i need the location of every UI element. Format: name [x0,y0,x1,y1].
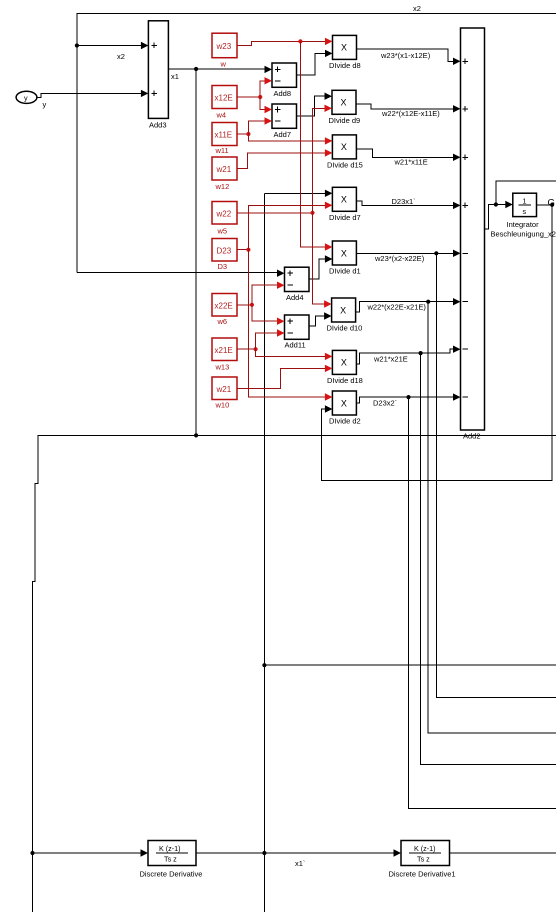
multiply block Divide d2 [332,391,356,415]
wire Discrete Derivative output [196,852,395,854]
svg-text:w: w [220,60,227,69]
wire Divide d1 output to Add2 [356,252,454,254]
label D23x1` [392,197,416,206]
wire x1dot vertical [263,193,265,912]
arrow into Divide d2 input2 [325,405,333,412]
arrow into Add2 port6 [453,298,461,305]
svg-text:DIvide d9: DIvide d9 [329,116,361,125]
svg-text:x11E: x11E [215,131,233,140]
label w21*x11E [394,158,428,167]
svg-text:w22*(x22E-x21E): w22*(x22E-x21E) [367,303,427,312]
label w21*x21E [373,355,408,364]
svg-text:DIvide d10: DIvide d10 [327,324,363,333]
sum block Add4 [285,267,310,291]
wire Divide d10 output to Add2 [356,302,455,312]
label x2 (top) [413,4,421,13]
node branch port6 [426,300,430,304]
svg-text:1: 1 [523,197,527,206]
label w5 [217,227,228,236]
label Add2 [463,432,481,441]
arrow red into Add4 minus [277,282,285,289]
svg-text:Discrete Derivative1: Discrete Derivative1 [389,870,456,879]
wire x1dot to Divide d7 [264,192,325,194]
label Add8 [274,89,292,98]
node integrator output branch [550,203,554,207]
svg-text:Ts z: Ts z [417,855,430,864]
wire Add8 output to Divide d8 [297,53,326,75]
wire w22 vertical to Divide d10 input1 [313,213,326,304]
multiply block Divide d1 [332,241,356,265]
label Add11 [285,341,306,350]
arrow red into Divide d18 input1 [325,353,333,360]
node x2 branch [75,43,79,47]
wire w21 first to Divide d15 input2 [237,153,326,169]
from tag x21E [212,338,237,361]
arrow red into Add7 minus [265,117,273,124]
svg-text:D23x2`: D23x2` [373,399,397,408]
arrow into Add2 port7 [453,346,461,353]
label Beschleunigung_x23 [491,230,556,239]
wire Add4 output to Divide d1 [309,259,326,279]
svg-text:Discrete Derivative: Discrete Derivative [140,870,203,879]
svg-text:w21*x11E: w21*x11E [394,158,428,167]
arrow into Add2 port1 [453,58,461,65]
arrow into Integrator [505,201,513,208]
node x1 bottom branch [194,433,198,437]
from tag w21 second [212,377,237,400]
arrow red into Divide d9 input2 [325,105,333,112]
wire x12E to Add8 minus [260,81,266,97]
label y (wire name) [43,100,47,109]
inport y oval [16,91,37,103]
label D23x2` [373,399,397,408]
wire x11E to Add7 minus [248,121,266,134]
svg-text:w5: w5 [217,227,228,236]
node D23 branch [246,248,250,252]
from tag D23 [212,239,237,262]
wire Divide d15 output to Add2 [356,149,454,158]
wire loop2 from port6 to right edge [428,302,556,733]
label D3 [218,262,228,271]
label Discrete Derivative1 [389,870,456,879]
arrow into Divide d8 input2 [325,50,333,57]
from tag x12E [212,86,237,109]
svg-text:w23: w23 [216,42,232,51]
svg-text:X: X [341,358,347,368]
wire x1 vertical [195,69,197,435]
arrow into Divide d9 input1 [325,93,333,100]
svg-text:x21E: x21E [215,346,233,355]
label w11 [215,146,229,155]
arrow into Discrete Derivative1 [394,849,402,856]
multiply block Divide d10 [332,298,356,322]
wire x12E output [237,96,260,98]
wire x22E to Add4 minus [252,285,279,305]
label Integrator [507,220,540,229]
arrow into Add3 input1 [141,42,149,49]
svg-text:X: X [341,248,347,258]
wire into Discrete Derivative [33,852,142,854]
svg-text:G: G [548,198,555,209]
svg-text:y: y [43,100,47,109]
multiply block Divide d9 [332,90,356,114]
wire x21E to Add11 minus [256,333,279,349]
node x12E branch [258,95,262,99]
wire x11E output [237,133,248,135]
svg-text:Add11: Add11 [285,341,306,350]
arrow red into Divide d7 input2 [325,202,333,209]
svg-text:DIvide d7: DIvide d7 [329,213,361,222]
node integrator input branch [494,202,498,206]
arrow into Divide d10 input2 [324,312,332,319]
label Add7 [274,130,292,139]
wire D23 to Divide d2 input1 [248,250,326,397]
svg-text:x12E: x12E [215,94,233,103]
arrow into Add2 port5 [453,250,461,257]
label w12 [215,182,230,191]
svg-text:DIvide d15: DIvide d15 [327,161,363,170]
label w23*(x2-x22E) [374,254,425,263]
multiply block Divide d15 [332,135,356,159]
node w22 branch [310,211,314,215]
wire Add7 output to Divide d9 [297,96,326,116]
svg-text:DIvide d18: DIvide d18 [327,376,363,385]
label Add4 [286,293,304,302]
wire x22E output [237,304,252,306]
multiply block Divide d8 [333,35,357,59]
sum block Add7 [272,104,297,128]
svg-text:X: X [341,98,347,108]
integrator block U 1/s [513,193,537,216]
svg-text:x1`: x1` [295,859,305,868]
arrow into Divide d7 input1 [325,190,333,197]
svg-text:X: X [341,195,347,205]
svg-text:s: s [523,207,527,216]
node branch port8 [406,395,410,399]
arrow into Add4 plus [277,270,285,277]
from tag w21 first [212,157,237,180]
svg-text:D23: D23 [217,246,232,255]
wire x11E to Divide d15 input1 [248,134,326,141]
svg-text:DIvide d8: DIvide d8 [329,61,361,70]
svg-text:Add7: Add7 [274,130,292,139]
label Divide d15 [327,161,363,170]
arrow red into Divide d8 input1 [325,38,333,45]
label w22*(x12E-x11E) [381,109,440,118]
wire Divide d7 output to Add2 [356,201,454,205]
multiply block Divide d7 [332,187,356,211]
svg-text:w21: w21 [216,165,232,174]
svg-text:Add3: Add3 [149,121,167,130]
label Divide d2 [329,417,361,426]
svg-text:w4: w4 [216,111,227,120]
wire x2 to Add4 plus input [77,272,278,274]
arrow into Add2 port4 [453,202,461,209]
wire Divide d18 output to Add2 [356,349,454,364]
svg-text:DIvide d1: DIvide d1 [329,267,361,276]
node branch port7 [419,351,423,355]
arrow red into Divide d15 input1 [325,137,333,144]
wire Add11 output to Divide d10 [309,316,326,326]
arrow red into Add11 minus [277,329,285,336]
svg-text:Add4: Add4 [286,293,304,302]
node left feedback to derivative [30,851,34,855]
wire x21E output [237,348,256,350]
arrow red into Divide d15 input2 [325,149,333,156]
arrow red into Divide d1 input1 [325,243,333,250]
arrow red into Divide d18 input2 [325,365,333,372]
svg-text:x2: x2 [413,4,421,13]
label w13 [215,363,230,372]
svg-text:x22E: x22E [215,301,233,310]
arrow into Discrete Derivative [141,849,149,856]
wire x21E to Divide d18 input1 [256,349,326,356]
svg-text:w6: w6 [217,317,228,326]
block Discrete Derivative [148,841,196,866]
svg-text:K (z-1): K (z-1) [159,844,181,853]
arrow into Add2 port8 [453,393,461,400]
label Divide d1 [329,267,361,276]
label w (name of w23) [220,60,227,69]
block Discrete Derivative1 [401,841,450,866]
svg-text:Beschleunigung_x23`: Beschleunigung_x23` [491,230,556,239]
node x11E branch [246,132,250,136]
label w23*(x1-x12E) [380,51,431,60]
svg-text:w23*(x1-x12E): w23*(x1-x12E) [380,51,431,60]
wire Integrator output [537,204,554,206]
svg-text:w21: w21 [216,385,232,394]
svg-text:y: y [24,93,28,102]
svg-text:Ts z: Ts z [164,855,177,864]
node x22E branch [250,303,254,307]
arrow red into Divide d2 input1 [325,393,333,400]
wire y to Add3 [37,93,142,97]
goto tag G (clipped at edge) [548,198,555,209]
svg-text:w10: w10 [215,401,230,410]
wire x2 top horizontal [77,13,556,15]
label x1 [171,72,179,81]
svg-text:DIvide d2: DIvide d2 [329,417,361,426]
from tag w22 [212,202,237,225]
wire w23 vertical to Divide d1 [300,41,326,247]
label w10 [215,401,230,410]
node y665 branch [262,663,266,667]
wire Divide d9 output to Add2 [356,104,455,109]
from tag x11E [212,123,237,146]
label w6 [217,317,228,326]
label Discrete Derivative [140,870,203,879]
arrow into Add3 input2 [141,90,149,97]
svg-text:w12: w12 [215,182,230,191]
node x21E branch [254,347,258,351]
svg-text:w13: w13 [215,363,230,372]
svg-text:D23x1`: D23x1` [392,197,416,206]
arrow into Add2 port2 [453,105,461,112]
wire x1 horizontal y435 [38,434,556,436]
svg-text:Integrator: Integrator [507,220,540,229]
wire w23 to Divide d8 [237,41,326,45]
wire Add3 output x1 [168,68,266,70]
wire w22 output [237,212,313,214]
arrow red into Add7 plus [265,106,273,113]
svg-text:K (z-1): K (z-1) [414,844,436,853]
label Divide d7 [329,213,361,222]
arrow red into Add8 minus [265,77,273,84]
wire y665 horizontal [264,664,556,666]
wire x2 branch to Add3 [77,45,142,47]
svg-text:x1: x1 [171,72,179,81]
wire x22E to Add11 plus [252,305,279,321]
arrow into Divide d1 input2 [325,255,333,262]
label x1` [295,859,305,868]
wire Discrete Derivative1 output [450,852,556,854]
wire x12E to Add7 plus [260,97,266,110]
svg-text:X: X [341,142,347,152]
node x1 branch [194,67,198,71]
label w22*(x22E-x21E) [367,303,427,312]
sum block Add2 [461,28,485,430]
wire x2 left vertical [76,13,78,272]
wire Add2 output to Integrator [485,205,508,230]
svg-text:Add2: Add2 [463,432,481,441]
node w23 branch [298,39,302,43]
label Divide d10 [327,324,363,333]
wire loop3 from port7 to right edge [421,353,556,764]
node x1dot branch bottom [262,851,266,855]
svg-text:w22*(x12E-x11E): w22*(x12E-x11E) [381,109,440,118]
label Divide d9 [329,116,361,125]
svg-text:X: X [340,305,346,315]
wire D23 to Divide d7 input2 [248,205,326,249]
node branch port5 [434,251,438,255]
label Divide d8 [329,61,361,70]
svg-text:w23*(x2-x22E): w23*(x2-x22E) [374,254,425,263]
label x2 (near Add3) [117,52,125,61]
arrow red into Add11 plus [277,318,285,325]
arrow into Add8 plus [265,66,273,73]
wire w22 vertical to Divide d9 input2 [313,108,327,213]
multiply block Divide d18 [332,350,356,374]
svg-text:X: X [341,398,347,408]
wire Divide d8 output to Add2 [357,49,455,61]
wire w21 second to Divide d18 input2 [237,368,326,388]
svg-text:D3: D3 [218,262,228,271]
svg-text:X: X [341,43,347,53]
label Divide d18 [327,376,363,385]
sum block Add11 [285,315,310,339]
wire left feedback vertical [33,435,38,912]
wire D23 output [237,249,248,251]
from tag x22E [212,294,237,317]
arrow into Add2 port3 [453,154,461,161]
wire Divide d2 output to Add2 [356,397,454,403]
wire x2dot feedback loop to Divide d2 [322,205,553,481]
from tag w23 [212,33,237,58]
arrow red into Divide d10 input1 [324,300,332,307]
sum block Add3 [148,21,168,119]
svg-text:w21*x21E: w21*x21E [373,355,408,364]
label Add3 [149,121,167,130]
svg-text:w22: w22 [216,209,232,218]
wire branch up to right edge [496,181,556,204]
sum block Add8 [272,63,297,87]
label w4 [216,111,227,120]
svg-text:Add8: Add8 [274,89,292,98]
wire loop4 from port8 to right edge [409,397,556,808]
wire loop1 from port5 to right edge [436,253,556,697]
svg-text:w11: w11 [215,146,229,155]
svg-text:x2: x2 [117,52,125,61]
